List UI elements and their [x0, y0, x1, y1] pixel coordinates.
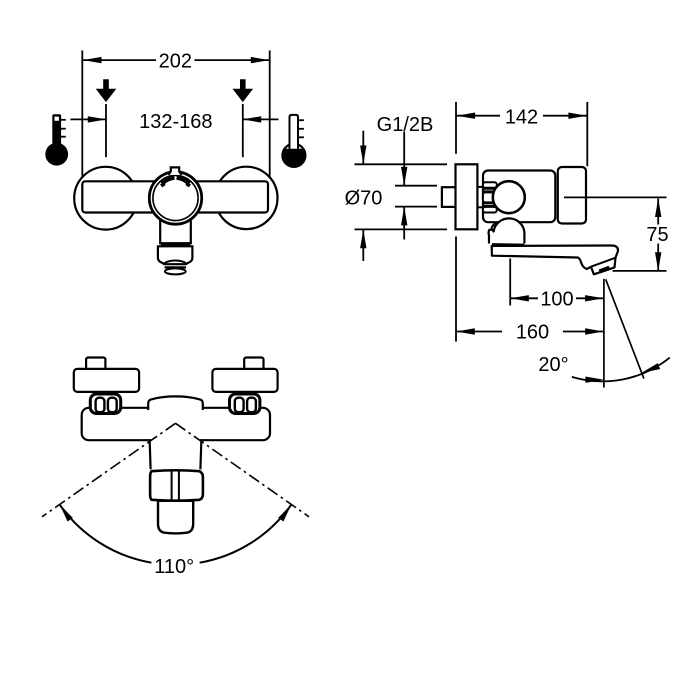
- aerator collar (front): [158, 246, 193, 264]
- wall flange (side): [456, 164, 478, 229]
- bold down arrow left: [96, 79, 117, 102]
- spout tube (top view): [158, 501, 193, 534]
- handle temperature-limit band left: [162, 178, 175, 184]
- svg-text:Ø70: Ø70: [345, 188, 383, 210]
- ball joint circle: [493, 181, 525, 213]
- flange plate left (top view): [74, 369, 139, 392]
- dimension 100 extension line: [509, 259, 511, 306]
- svg-text:75: 75: [646, 224, 668, 246]
- spout neck (front): [160, 216, 191, 243]
- dimension 202 extension line left: [81, 51, 83, 182]
- svg-text:100: 100: [540, 288, 573, 310]
- aerator outlet stripe: [599, 268, 609, 272]
- dimension 75 top reference line: [564, 196, 667, 198]
- knurled ring ribs: [483, 182, 497, 212]
- FRONT-VIEW-GROUP: [45, 51, 305, 275]
- 20 deg arc: [572, 358, 670, 382]
- reference line vertical below outlet: [603, 279, 605, 388]
- dimension 142 extension line right: [586, 102, 588, 166]
- swivel centerline right (dash-dot): [176, 423, 310, 517]
- 110 deg arc right: [200, 505, 292, 563]
- dimension 142 extension line left (wall line): [455, 102, 457, 154]
- handle inner circle: [153, 175, 198, 220]
- dimension G1/2B nipple bottom line: [395, 206, 437, 208]
- handle cap (side): [558, 167, 586, 224]
- nipple silhouette lines in gap: [477, 186, 483, 188]
- body bar: [82, 181, 268, 212]
- svg-text:110°: 110°: [154, 556, 194, 578]
- bold down arrow right: [233, 79, 254, 102]
- svg-text:132-168: 132-168: [139, 111, 212, 133]
- spout neck (top view): [150, 439, 202, 470]
- wall centerline below flange: [455, 237, 457, 342]
- dimension 75 line: [657, 199, 659, 225]
- TOP-VIEW-GROUP: [42, 358, 309, 579]
- spout elbow dome: [489, 218, 525, 243]
- handle outer circle: [149, 172, 201, 224]
- 110 deg arc left: [60, 505, 152, 563]
- union nut left (top view): [90, 394, 120, 414]
- connection nipple (side): [442, 187, 456, 207]
- dimension G1/2B arrows: [403, 132, 405, 186]
- spout (side): [492, 246, 618, 275]
- valve body (side): [483, 171, 555, 223]
- thermometer icon hot (left): [45, 114, 68, 165]
- spout elbow clip detail: [491, 223, 497, 231]
- handle temperature-limit band right: [177, 178, 190, 184]
- spout elbow dark base: [492, 243, 524, 247]
- svg-text:202: 202: [159, 51, 192, 73]
- thermometer icon cold (right): [282, 115, 305, 167]
- spout outlet split line: [591, 258, 615, 267]
- dimension 132-168 inner extension line right: [242, 104, 244, 157]
- swivel centerline left (dash-dot): [42, 423, 176, 517]
- wall flange circle right: [215, 167, 277, 229]
- dimension 160 line: [456, 331, 502, 333]
- flange plate right (top view): [212, 369, 277, 392]
- body (top view): [82, 408, 270, 440]
- nipple left (top view): [86, 358, 105, 371]
- dimension 75 bottom reference line: [613, 270, 667, 272]
- dimension 132-168 line: [71, 118, 106, 120]
- dimension 202 line: [83, 59, 156, 61]
- dimension G1/2B nipple top line: [395, 185, 437, 187]
- dimension 100 line: [510, 297, 538, 299]
- wall flange circle left: [74, 167, 137, 230]
- svg-text:20°: 20°: [538, 354, 568, 376]
- reference line 20 deg slant: [606, 279, 644, 378]
- spout nut (top view): [150, 470, 203, 500]
- svg-text:160: 160: [516, 322, 549, 344]
- spout separator band (front): [161, 243, 191, 246]
- dimension 142 line: [457, 115, 500, 117]
- dimension D70 top line: [355, 163, 448, 165]
- nipple right (top view): [244, 358, 263, 371]
- body center hump (top view): [148, 396, 203, 410]
- handle top tab: [168, 167, 181, 175]
- dimension 202 extension line right: [269, 51, 271, 182]
- SIDE-VIEW-GROUP: [345, 102, 670, 388]
- dimension 132-168 inner extension line left: [105, 104, 107, 157]
- dimension D70 bottom line: [355, 228, 448, 230]
- aerator ring (front): [165, 266, 186, 268]
- svg-text:142: 142: [505, 106, 538, 128]
- dimension D70 arrows: [362, 131, 364, 164]
- union nut right (top view): [230, 394, 260, 414]
- aerator outlet cup (front): [165, 268, 186, 274]
- aerator dome arc (front): [164, 261, 186, 264]
